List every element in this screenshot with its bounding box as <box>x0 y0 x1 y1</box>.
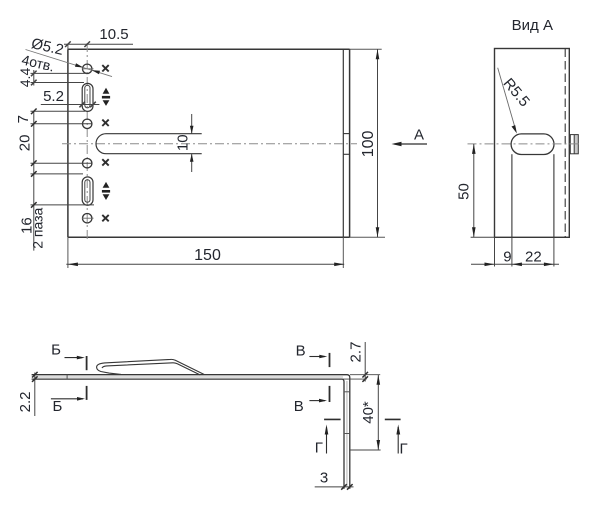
dimension 4.4 <box>31 70 87 86</box>
flange tick 2 <box>344 433 350 435</box>
plate left edge extension down (for 150 dim) <box>67 237 69 268</box>
slot 1 inner outline <box>85 85 90 108</box>
svg-text:3: 3 <box>320 470 328 487</box>
svg-text:100: 100 <box>360 130 377 157</box>
lance tab inner edge <box>102 363 200 375</box>
extension line hole 2 <box>31 123 92 125</box>
svg-text:22: 22 <box>525 249 542 266</box>
slot left edge projection <box>511 154 513 237</box>
2.7 extension bottom <box>342 378 367 380</box>
leader line for hole diameter <box>26 50 113 77</box>
plate top edge extension (for 100 dim) <box>350 48 382 50</box>
svg-text:В: В <box>294 398 304 415</box>
hole 1 <box>83 64 92 73</box>
tick marks on left dimension column <box>31 109 37 208</box>
svg-text:Б: Б <box>51 341 61 358</box>
hole 4 cross tick <box>82 217 94 219</box>
svg-text:40*: 40* <box>360 401 377 424</box>
svg-text:10: 10 <box>175 134 192 151</box>
svg-text:150: 150 <box>194 247 221 264</box>
dimension 50 <box>473 144 475 237</box>
strip bottom surface and inner flange edge <box>32 379 344 489</box>
dimension 40* <box>377 375 379 450</box>
svg-text:10.5: 10.5 <box>99 26 128 43</box>
plate left edge extension up (for 10.5 dim) <box>67 44 69 50</box>
lance symbol near slot 1 <box>102 88 110 106</box>
slot 2 outer outline <box>82 177 93 205</box>
leader arrowhead lower-right <box>92 70 100 74</box>
dimension 2.7 <box>364 342 366 382</box>
extensions for 9 and 22 <box>471 237 559 266</box>
svg-text:7: 7 <box>15 115 32 123</box>
strip mid gray line <box>33 376 343 378</box>
plate bottom edge extension (for 100 dim) <box>350 236 385 238</box>
extension line slot1 bottom <box>31 110 86 112</box>
long slot left round end <box>96 134 106 154</box>
svg-text:Б: Б <box>52 398 62 415</box>
dimension 150 <box>66 263 344 265</box>
svg-text:5.2: 5.2 <box>43 88 64 105</box>
dimension 100 <box>377 49 379 237</box>
hole 3 <box>83 159 92 168</box>
svg-text:4.4: 4.4 <box>17 68 33 88</box>
flange tick 1 <box>344 391 350 393</box>
bend line (inner) <box>342 49 344 237</box>
dimension 3 <box>315 486 354 488</box>
left dimension column line <box>33 111 35 250</box>
flange slot upper tick <box>343 133 349 135</box>
slot 2 inner outline <box>85 180 90 203</box>
side tab <box>570 135 578 154</box>
flange slot lower tick <box>343 153 349 155</box>
svg-text:9: 9 <box>503 249 511 266</box>
flange mid gray line <box>346 381 348 487</box>
plate left edge <box>67 49 69 237</box>
x mark 2 <box>102 120 108 126</box>
slot right edge projection <box>553 154 555 237</box>
x mark 3 <box>102 159 108 165</box>
svg-text:20: 20 <box>16 135 33 152</box>
2.7 extension top <box>350 374 380 376</box>
hole 2 <box>83 119 92 128</box>
extension line hole 3 <box>31 162 92 164</box>
svg-text:50: 50 <box>456 183 473 200</box>
lance tab outer edge with left hook <box>97 359 205 374</box>
dimension 10.5 <box>64 41 133 47</box>
view A slot <box>511 134 554 155</box>
dimension 5.2 slot width <box>41 102 100 108</box>
view A outline <box>495 49 570 238</box>
long slot bottom edge <box>106 153 202 155</box>
bend line extension down (for 150 dim) <box>342 237 344 268</box>
vertical centerline of holes <box>86 43 88 241</box>
svg-text:2 паза: 2 паза <box>30 207 46 248</box>
hole 4 <box>83 214 92 223</box>
R5.5 leader <box>498 68 516 130</box>
section G right <box>385 418 401 420</box>
slot 1 outer outline <box>82 83 93 111</box>
long slot top edge <box>106 133 202 135</box>
svg-text:Вид А: Вид А <box>512 17 553 34</box>
svg-text:Г: Г <box>399 441 407 458</box>
svg-text:2.2: 2.2 <box>17 391 34 412</box>
hole 1 cross tick <box>82 68 94 70</box>
leader arrowhead upper-left <box>75 63 83 67</box>
svg-text:В: В <box>296 343 306 360</box>
x mark 1 <box>102 65 108 71</box>
svg-text:Г: Г <box>315 440 323 457</box>
view A arrow <box>395 143 428 145</box>
50 extension at bottom <box>471 236 495 238</box>
plate top edge <box>68 48 350 50</box>
dimension 2.2 <box>34 373 36 417</box>
view A centerline <box>468 143 582 145</box>
view A hidden line <box>564 49 566 238</box>
horizontal centerline <box>62 143 357 145</box>
strip tick <box>66 375 68 379</box>
plate bottom edge <box>68 236 350 238</box>
plate right edge <box>349 49 351 237</box>
lance symbol near slot 2 <box>102 182 110 200</box>
section G left <box>324 418 341 420</box>
svg-text:А: А <box>414 127 424 144</box>
dimension line 9 / 22 <box>471 263 559 265</box>
dimension 10 (long slot) <box>191 114 193 172</box>
svg-text:2.7: 2.7 <box>348 342 365 363</box>
extension line slot2 bottom <box>31 204 95 206</box>
x mark 4 <box>102 215 108 221</box>
strip top surface and outer flange edge <box>32 375 350 489</box>
extension line slot2 top <box>31 173 84 175</box>
